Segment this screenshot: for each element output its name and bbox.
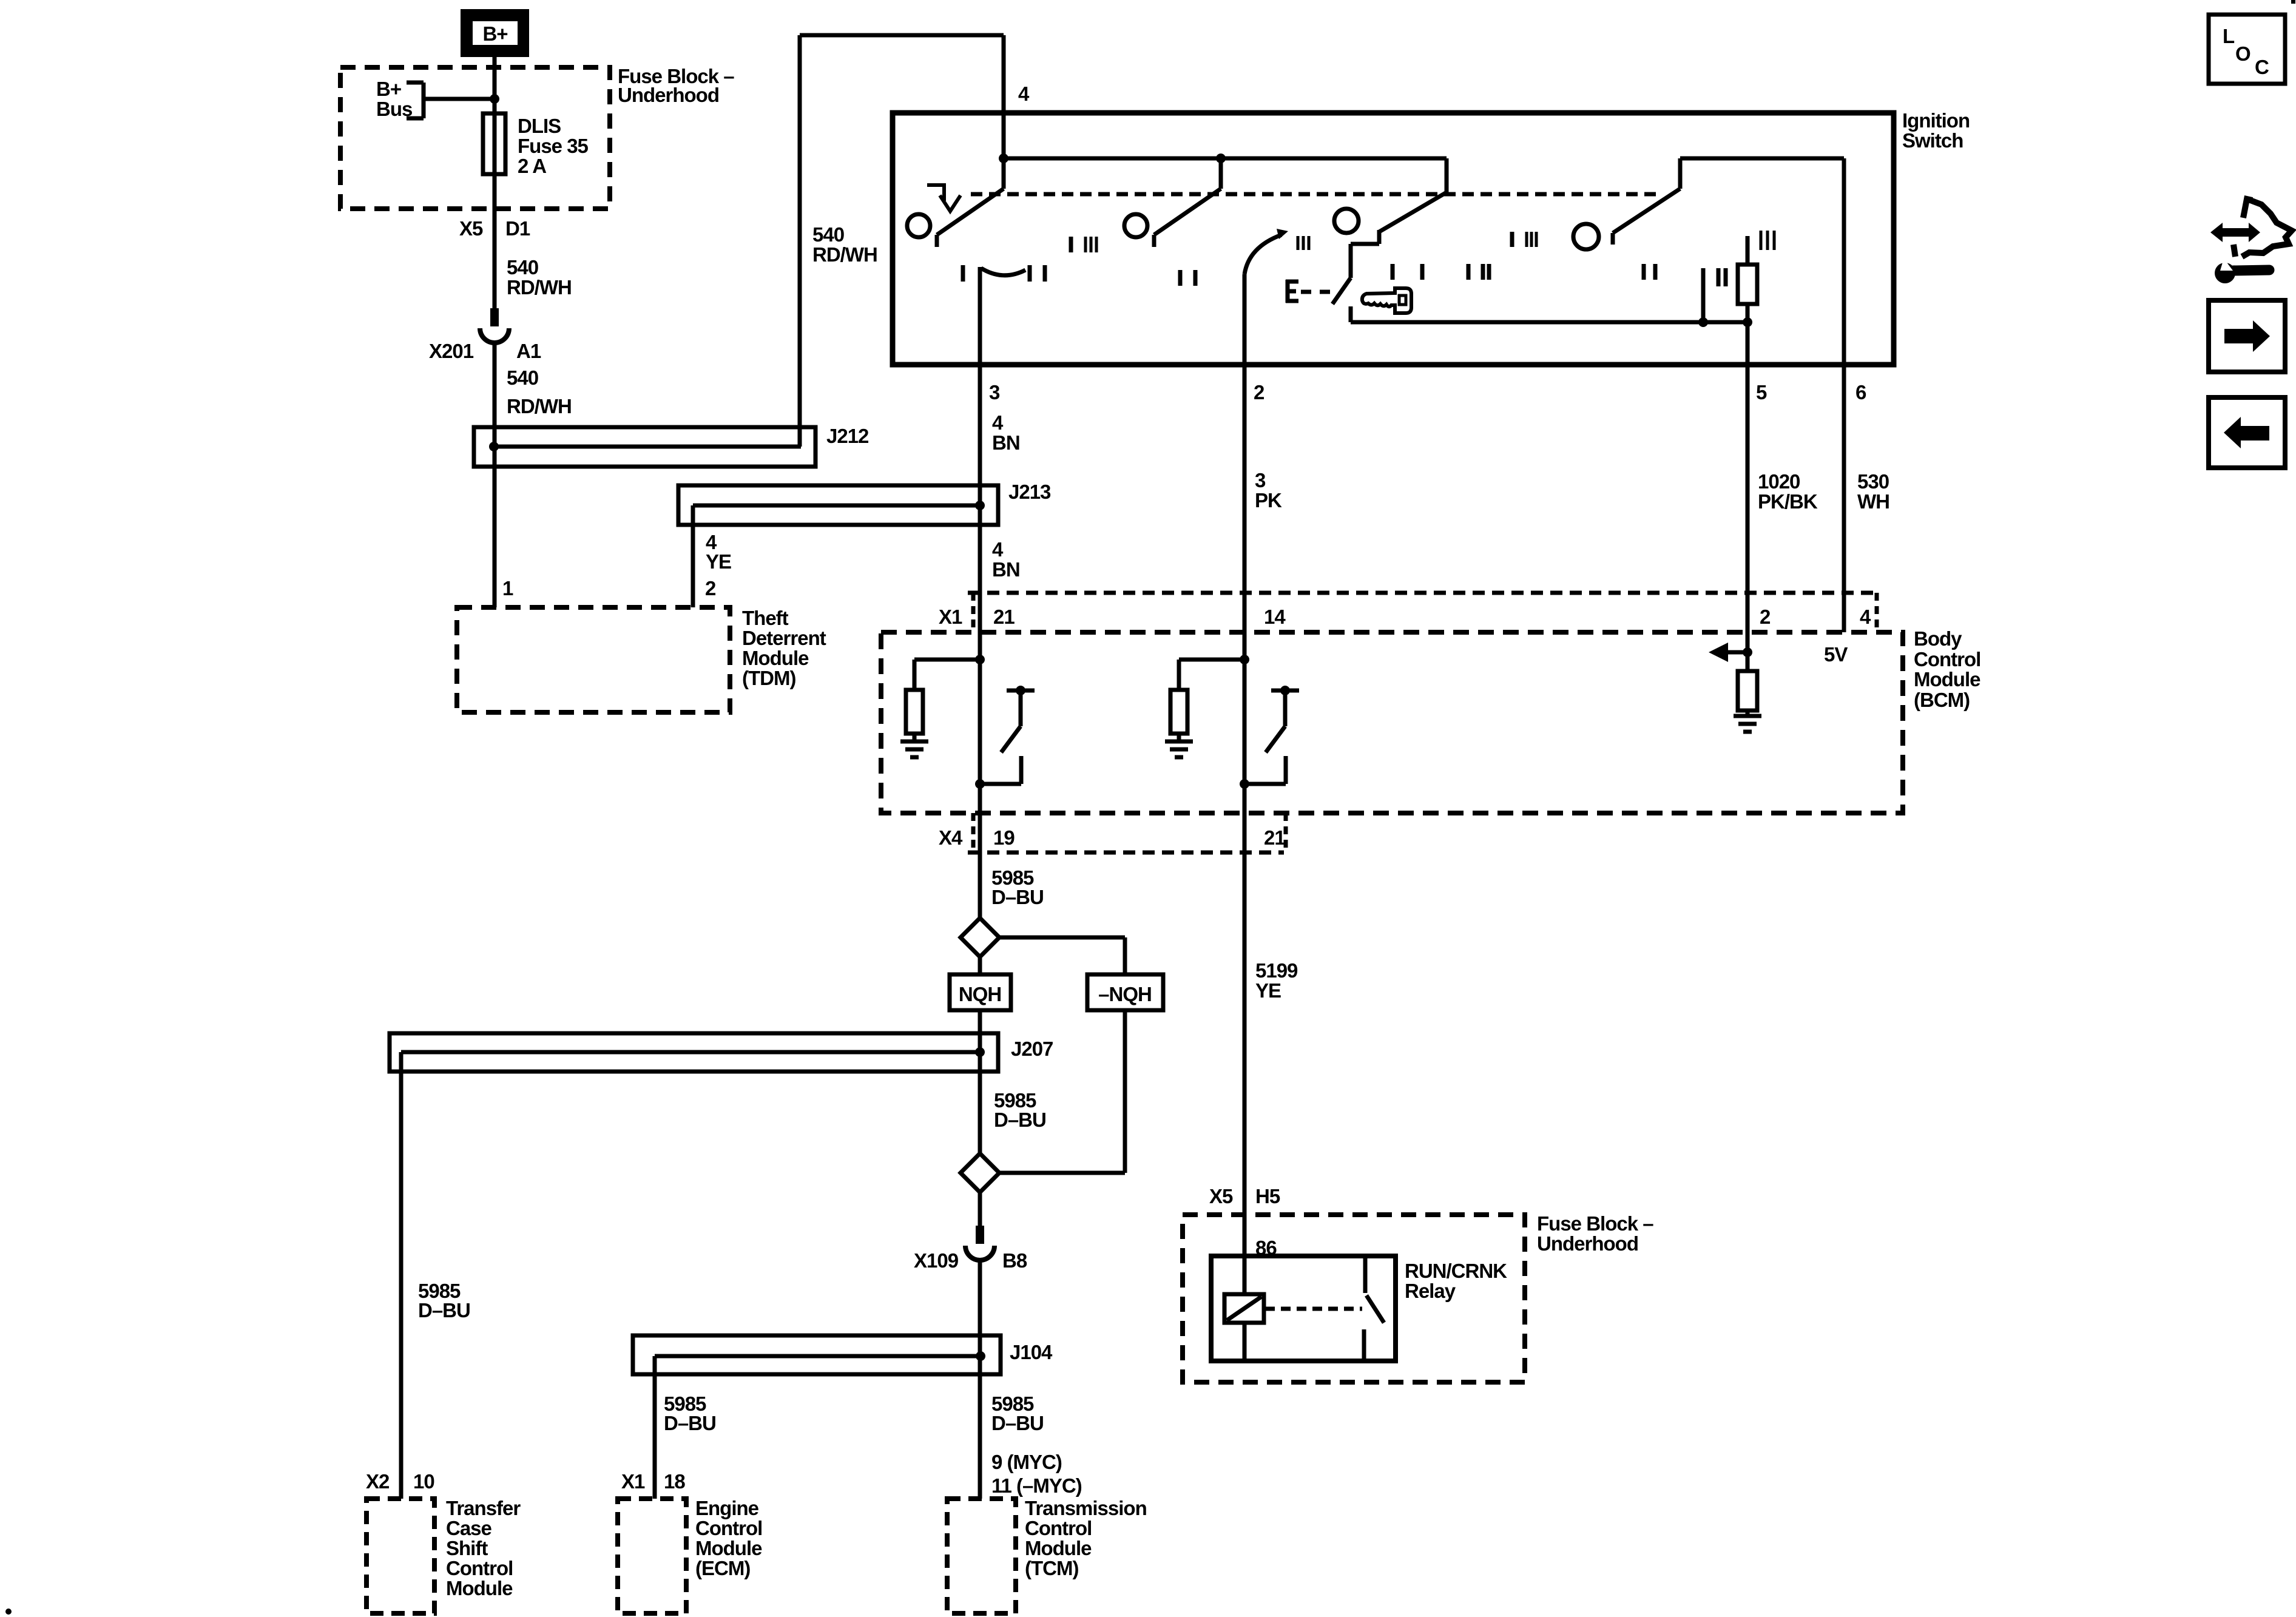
svg-text:11 (–MYC): 11 (–MYC) (991, 1474, 1082, 1497)
svg-text:4: 4 (992, 538, 1004, 561)
svg-text:YE: YE (1255, 979, 1281, 1002)
svg-text:D–BU: D–BU (991, 886, 1044, 908)
svg-text:RD/WH: RD/WH (812, 243, 877, 266)
svg-text:Ignition: Ignition (1902, 109, 1970, 132)
svg-text:X5: X5 (459, 217, 483, 240)
svg-text:X201: X201 (429, 340, 474, 362)
svg-text:2: 2 (1760, 606, 1771, 628)
svg-text:540: 540 (507, 366, 538, 389)
svg-text:J213: J213 (1008, 481, 1051, 503)
svg-text:X1: X1 (939, 606, 962, 628)
svg-text:Case: Case (446, 1517, 492, 1539)
svg-text:21: 21 (1264, 826, 1285, 849)
svg-text:(TDM): (TDM) (742, 667, 795, 689)
svg-text:86: 86 (1255, 1237, 1277, 1259)
svg-text:J212: J212 (826, 425, 869, 447)
svg-text:Module: Module (695, 1537, 762, 1559)
svg-text:PK/BK: PK/BK (1758, 490, 1818, 513)
svg-text:Module: Module (446, 1577, 513, 1599)
svg-text:BN: BN (992, 431, 1020, 454)
svg-text:2: 2 (705, 577, 716, 599)
svg-text:Fuse Block –: Fuse Block – (1537, 1212, 1653, 1235)
svg-text:YE: YE (706, 550, 731, 573)
svg-text:3: 3 (1255, 469, 1266, 491)
svg-text:Transmission: Transmission (1025, 1497, 1147, 1519)
svg-text:D–BU: D–BU (991, 1412, 1044, 1434)
svg-text:RD/WH: RD/WH (507, 276, 572, 299)
svg-text:Underhood: Underhood (1537, 1232, 1638, 1255)
svg-text:540: 540 (812, 223, 844, 246)
svg-text:6: 6 (1855, 381, 1866, 403)
svg-text:21: 21 (993, 606, 1015, 628)
svg-text:Engine: Engine (695, 1497, 759, 1519)
svg-text:Shift: Shift (446, 1537, 488, 1559)
svg-text:X5: X5 (1209, 1185, 1233, 1207)
svg-text:530: 530 (1857, 470, 1889, 493)
svg-text:Body: Body (1914, 627, 1962, 650)
svg-text:5: 5 (1756, 381, 1767, 403)
svg-text:D–BU: D–BU (418, 1299, 470, 1322)
svg-text:B8: B8 (1002, 1249, 1027, 1272)
svg-text:DLIS: DLIS (518, 115, 561, 137)
svg-text:2: 2 (1254, 381, 1264, 403)
svg-text:Control: Control (1914, 648, 1980, 670)
svg-text:B+: B+ (482, 22, 507, 45)
svg-text:X1: X1 (621, 1470, 645, 1493)
svg-text:1020: 1020 (1758, 470, 1800, 493)
svg-text:(BCM): (BCM) (1914, 689, 1970, 711)
svg-text:1: 1 (502, 577, 513, 599)
svg-text:PK: PK (1255, 489, 1282, 511)
svg-text:Deterrent: Deterrent (742, 627, 826, 649)
svg-text:18: 18 (664, 1470, 685, 1493)
svg-text:J104: J104 (1010, 1341, 1053, 1363)
svg-text:A1: A1 (516, 340, 541, 362)
svg-text:C: C (2255, 56, 2269, 78)
svg-text:2 A: 2 A (518, 155, 546, 177)
svg-text:NQH: NQH (959, 983, 1001, 1005)
svg-text:Relay: Relay (1405, 1280, 1456, 1302)
svg-text:10: 10 (413, 1470, 434, 1493)
svg-text:Theft: Theft (742, 607, 789, 629)
svg-text:WH: WH (1857, 490, 1889, 513)
svg-text:Module: Module (742, 647, 809, 669)
svg-text:Fuse 35: Fuse 35 (518, 135, 589, 157)
svg-text:Transfer: Transfer (446, 1497, 521, 1519)
svg-text:Control: Control (446, 1557, 513, 1579)
svg-text:O: O (2235, 42, 2250, 65)
svg-text:–NQH: –NQH (1098, 983, 1152, 1005)
svg-text:D1: D1 (505, 217, 530, 240)
svg-text:4: 4 (1860, 606, 1871, 628)
svg-text:(ECM): (ECM) (695, 1557, 750, 1579)
svg-text:RUN/CRNK: RUN/CRNK (1405, 1260, 1507, 1282)
svg-text:D–BU: D–BU (664, 1412, 716, 1434)
svg-text:5199: 5199 (1255, 959, 1298, 982)
svg-text:Underhood: Underhood (618, 84, 719, 106)
svg-text:Module: Module (1914, 668, 1980, 690)
svg-text:Control: Control (695, 1517, 762, 1539)
svg-text:540: 540 (507, 256, 538, 279)
svg-text:BN: BN (992, 558, 1020, 581)
svg-text:D–BU: D–BU (994, 1109, 1046, 1131)
svg-text:4: 4 (992, 411, 1004, 434)
svg-text:Control: Control (1025, 1517, 1092, 1539)
svg-text:X2: X2 (366, 1470, 390, 1493)
svg-text:RD/WH: RD/WH (507, 395, 572, 417)
svg-text:19: 19 (993, 826, 1015, 849)
svg-text:Module: Module (1025, 1537, 1092, 1559)
svg-text:B+: B+ (376, 78, 401, 100)
svg-text:5V: 5V (1824, 643, 1848, 666)
svg-text:14: 14 (1264, 606, 1286, 628)
svg-text:(TCM): (TCM) (1025, 1557, 1078, 1579)
svg-text:X109: X109 (914, 1249, 959, 1272)
svg-text:Bus: Bus (376, 98, 412, 120)
svg-text:H5: H5 (1255, 1185, 1280, 1207)
svg-text:J207: J207 (1011, 1038, 1053, 1060)
svg-text:4: 4 (1018, 83, 1030, 105)
svg-text:Switch: Switch (1902, 129, 1963, 152)
svg-text:X4: X4 (939, 826, 963, 849)
svg-text:9 (MYC): 9 (MYC) (991, 1451, 1062, 1473)
svg-text:L: L (2223, 25, 2235, 47)
svg-text:3: 3 (989, 381, 1000, 403)
